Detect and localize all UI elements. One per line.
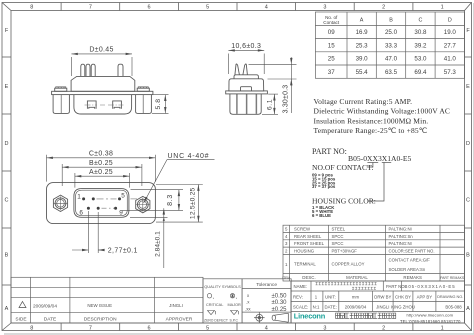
svg-text:UNIT:: UNIT: (325, 294, 336, 299)
revision header (15, 316, 192, 322)
svg-text:A: A (360, 18, 364, 24)
bottom row centerline (102, 207, 115, 209)
svg-text:2,77±0.1: 2,77±0.1 (108, 247, 138, 254)
svg-text:JINGLI: JINGLI (169, 303, 183, 308)
tolerance rows (245, 293, 251, 311)
dimension 8.3 (122, 190, 183, 211)
svg-text:25.0: 25.0 (385, 29, 398, 36)
svg-text:CONTACT AREA:G/F: CONTACT AREA:G/F (389, 257, 431, 262)
svg-text:B05-0XX3X1A0-E5: B05-0XX3X1A0-E5 (405, 284, 456, 289)
svg-text:N:1: N:1 (313, 305, 320, 310)
svg-text:DATE:: DATE: (325, 305, 337, 310)
svg-text:09: 09 (328, 29, 335, 36)
top view screw cap right (138, 87, 148, 88)
svg-text:Dielectric Withstanding Voltag: Dielectric Withstanding Voltage:1000V AC (314, 107, 451, 116)
dimension B±0.25 (62, 164, 142, 186)
title block grid (291, 281, 465, 323)
top view screw body right (136, 95, 152, 114)
zone numbers bottom (30, 325, 443, 331)
dimension 12.5±0.25 (156, 185, 203, 223)
scale row (293, 305, 462, 310)
svg-text:6: 6 (79, 209, 83, 216)
paper edge shadow bottom (4, 333, 474, 335)
side view lower body (230, 94, 261, 114)
dimension 6.1 (262, 94, 278, 114)
dimension C±0.38 (47, 155, 156, 182)
svg-text:DRAWING NO.: DRAWING NO. (437, 295, 463, 299)
top view screw head left (55, 88, 67, 91)
BOM table grid (283, 225, 465, 281)
zone letters left (5, 28, 9, 312)
underline under XX (367, 162, 378, 164)
dimension A±0.25 (75, 173, 130, 188)
svg-text:A: A (5, 306, 9, 312)
svg-text:TEL:0769-85181660 85181770: TEL:0769-85181660 85181770 (400, 319, 461, 324)
svg-text:6: 6 (147, 325, 150, 331)
svg-text:mm: mm (352, 294, 360, 299)
svg-text:12.5±0.25: 12.5±0.25 (189, 187, 196, 219)
svg-text:B: B (466, 253, 470, 259)
svg-text:REAR SHEEL: REAR SHEEL (294, 234, 322, 239)
revision triangle (19, 302, 26, 308)
svg-text:6 = BLUE: 6 = BLUE (312, 213, 331, 218)
svg-text:41.0: 41.0 (444, 56, 457, 63)
svg-text:8.3: 8.3 (167, 194, 174, 206)
svg-text:SPCC: SPCC (332, 241, 344, 246)
zone ticks left (2, 57, 11, 285)
svg-text:39.0: 39.0 (356, 56, 369, 63)
BOM descriptions (294, 227, 325, 267)
front flange (47, 183, 156, 224)
side view prong right (243, 64, 248, 75)
right screw hex (136, 196, 150, 212)
quality symbols box (203, 279, 242, 323)
electrical spec text (314, 97, 451, 135)
svg-text:SPCC: SPCC (332, 234, 344, 239)
top view centerline (85, 104, 124, 106)
svg-text:A±0.25: A±0.25 (89, 169, 113, 176)
svg-text:30.8: 30.8 (414, 29, 427, 36)
svg-text:SCALE:: SCALE: (293, 305, 308, 310)
critical symbol (207, 294, 214, 299)
svg-text:3: 3 (323, 5, 326, 11)
svg-text:6.1: 6.1 (266, 99, 273, 110)
side view shroud notch (241, 87, 252, 91)
svg-text:±0.30: ±0.30 (272, 300, 288, 306)
svg-text:2009/06/04: 2009/06/04 (345, 305, 367, 310)
BOM item numbers (285, 227, 288, 267)
svg-text:15: 15 (328, 42, 335, 49)
dimension 3.30±0.3 (249, 57, 297, 113)
leader contact code (367, 163, 373, 168)
front pins row top (82, 197, 121, 200)
spc symbol (231, 311, 239, 315)
top view screw head right (137, 88, 149, 91)
top view screw body left split (60, 95, 62, 114)
datum target symbol (254, 312, 265, 323)
svg-text:A: A (466, 306, 470, 312)
top view lower body (74, 95, 132, 114)
name row (294, 284, 456, 289)
pin row1 centerline extension to screw (131, 198, 138, 200)
svg-text:10,6±0.3: 10,6±0.3 (231, 43, 261, 50)
svg-text:±0.50: ±0.50 (272, 293, 288, 299)
svg-text:CHK BY: CHK BY (395, 294, 411, 299)
svg-text:25: 25 (328, 56, 335, 63)
svg-text:7: 7 (89, 325, 92, 331)
revision row text (33, 303, 183, 310)
UNC leader (144, 160, 167, 203)
svg-text:25.3: 25.3 (356, 42, 369, 49)
svg-text:PALTING:NI: PALTING:NI (389, 241, 412, 246)
svg-text:http://www.lineconn.com: http://www.lineconn.com (407, 313, 454, 318)
revision table grid (11, 277, 203, 323)
svg-text:2.84±0.1: 2.84±0.1 (155, 231, 162, 257)
top view upper body (71, 76, 135, 91)
svg-text:4: 4 (265, 325, 268, 331)
svg-text:69.4: 69.4 (414, 69, 427, 76)
left screw hex (53, 195, 67, 211)
svg-text:D±0.45: D±0.45 (89, 47, 113, 54)
svg-text:COLOR:SEE PART NO.: COLOR:SEE PART NO. (389, 249, 435, 254)
svg-text:APPROVER: APPROVER (166, 316, 193, 322)
svg-text:2: 2 (382, 5, 385, 11)
dimension 2.84±0.1 (130, 208, 168, 268)
pin number labels (77, 193, 125, 217)
svg-text:63.5: 63.5 (385, 69, 398, 76)
svg-text:9: 9 (119, 210, 123, 217)
svg-text:TERMINAL: TERMINAL (294, 262, 316, 267)
front shroud inner (76, 190, 128, 216)
svg-text:3: 3 (323, 325, 326, 331)
svg-text:33.3: 33.3 (385, 42, 398, 49)
svg-text:C±0.38: C±0.38 (89, 151, 113, 158)
svg-text:8: 8 (30, 325, 33, 331)
svg-text:3.30±0.3: 3.30±0.3 (283, 85, 290, 114)
UNC underline (167, 159, 215, 161)
top row centerline (97, 198, 117, 200)
front pins row bottom (87, 207, 117, 210)
zero defect symbol (208, 311, 216, 315)
corner diagonal BL (2, 323, 11, 331)
zone ticks top (61, 3, 413, 11)
leader color code (368, 163, 385, 202)
svg-text:B05-088: B05-088 (445, 305, 462, 310)
svg-text:COPPER ALLOY: COPPER ALLOY (332, 262, 365, 267)
svg-text:NEW ISSUE: NEW ISSUE (87, 303, 112, 308)
top view flange bar (52, 91, 153, 94)
svg-text:MAJOR: MAJOR (228, 303, 242, 307)
svg-text:QUALITY SYMBOLS: QUALITY SYMBOLS (204, 284, 241, 289)
svg-text:57.3: 57.3 (444, 69, 457, 76)
side view channel dividers (236, 94, 256, 114)
svg-text:39.2: 39.2 (414, 42, 427, 49)
dimension 10.6±0.3 (228, 50, 264, 74)
svg-text:E: E (466, 84, 470, 90)
svg-text:ZERO DEFECT: ZERO DEFECT (204, 319, 228, 323)
svg-text:Contact: Contact (323, 20, 340, 25)
zone letters right (466, 28, 470, 312)
svg-text:C: C (418, 18, 422, 24)
svg-text:STEEL: STEEL (332, 227, 346, 232)
zone ticks bottom (61, 323, 413, 331)
major symbol (230, 294, 237, 299)
rev row (293, 294, 463, 299)
svg-text:Lineconn: Lineconn (294, 312, 326, 321)
svg-text:PALTING:NI: PALTING:NI (389, 227, 412, 232)
svg-text:SIDE: SIDE (15, 316, 26, 322)
svg-text:.xx: .xx (245, 306, 251, 311)
top view screw body left (53, 95, 69, 114)
quality symbols text (204, 284, 241, 323)
svg-text:PALTING:Sn: PALTING:Sn (389, 234, 414, 239)
svg-text:D: D (448, 18, 452, 24)
corner diagonal TL (2, 3, 11, 11)
svg-text:55.4: 55.4 (356, 69, 369, 76)
svg-text:NO.OF CONTACT:: NO.OF CONTACT: (312, 163, 373, 172)
contact table header (323, 15, 452, 25)
svg-text:REV:: REV: (293, 294, 303, 299)
projection cone symbol (272, 313, 288, 322)
svg-text:27.7: 27.7 (444, 42, 457, 49)
svg-text:ITEM: ITEM (282, 276, 290, 280)
svg-text:PART REMAKS: PART REMAKS (440, 276, 465, 280)
side view main flange (226, 91, 268, 94)
BOM header row (282, 275, 465, 280)
svg-text:C: C (5, 198, 9, 204)
svg-text:47.0: 47.0 (385, 56, 398, 63)
side view top cushion (234, 75, 258, 79)
contact dimension table (315, 12, 464, 78)
svg-text:B±0.25: B±0.25 (89, 160, 113, 167)
BOM remarks (389, 227, 435, 272)
svg-text:PBT+30%GF: PBT+30%GF (332, 249, 358, 254)
svg-text:PART NO:: PART NO: (312, 147, 347, 156)
svg-text:4: 4 (265, 5, 268, 11)
svg-text:REMAKS: REMAKS (403, 275, 422, 280)
svg-text:5.8: 5.8 (155, 98, 162, 109)
tolerance box (242, 279, 291, 323)
zone ticks right (465, 57, 472, 285)
corner diagonal TR (465, 3, 472, 11)
svg-text:Voltage Current Rating:5 AMP.: Voltage Current Rating:5 AMP. (314, 97, 413, 106)
contact table rows (328, 29, 457, 76)
svg-text:CRITICAL: CRITICAL (206, 303, 223, 307)
svg-text:6: 6 (147, 5, 150, 11)
svg-text:5: 5 (206, 5, 209, 11)
svg-text:±0.25: ±0.25 (272, 307, 288, 313)
svg-text:SOLDER AREA:Sn: SOLDER AREA:Sn (389, 267, 426, 272)
paper edge shadow right (472, 3, 474, 334)
company chinese name (simulated glyph boxes) (336, 313, 396, 318)
svg-text:37 = 37 pos: 37 = 37 pos (312, 184, 336, 189)
svg-text:2: 2 (382, 325, 385, 331)
svg-text:8: 8 (30, 5, 33, 11)
side view prong left (235, 64, 240, 75)
svg-text:NAME:: NAME: (294, 284, 308, 289)
svg-text:PART NO.: PART NO. (386, 284, 406, 289)
svg-text:16.9: 16.9 (356, 29, 369, 36)
corner diagonal BR (465, 323, 472, 331)
top view slot post right (113, 101, 122, 109)
top view prong right (118, 64, 123, 76)
svg-text:7: 7 (89, 5, 92, 11)
svg-text:FRONT SHEEL: FRONT SHEEL (294, 241, 325, 246)
side view shroud (229, 79, 264, 91)
svg-text:Temperature Range:-25℃ to +85℃: Temperature Range:-25℃ to +85℃ (314, 126, 428, 135)
front shroud outer (74, 189, 129, 218)
name row product chinese (simulated) (316, 282, 377, 289)
zone numbers top (30, 5, 443, 11)
svg-text:B: B (5, 253, 9, 259)
svg-text:KING ZHOU: KING ZHOU (391, 305, 415, 310)
svg-text:MATERIAL: MATERIAL (346, 275, 368, 280)
svg-text:Tolerance: Tolerance (256, 282, 277, 288)
top view prong group left (81, 64, 95, 76)
svg-text:1: 1 (441, 325, 444, 331)
BOM materials (332, 227, 365, 267)
dimension 2.77±0.1 (72, 211, 105, 253)
svg-text:DATE: DATE (44, 316, 56, 322)
svg-text:2009/09/04: 2009/09/04 (33, 303, 57, 309)
top view screw body right split (142, 95, 144, 114)
svg-text:C: C (466, 198, 470, 204)
svg-text:DRW BY: DRW BY (374, 294, 391, 299)
svg-text:D: D (5, 141, 9, 147)
svg-text:1: 1 (441, 5, 444, 11)
contact list (312, 173, 336, 190)
svg-text:UNC 4-40#: UNC 4-40# (168, 153, 210, 160)
svg-text:37: 37 (328, 69, 335, 76)
svg-text:SCREW: SCREW (294, 227, 311, 232)
housing color list (312, 205, 335, 218)
svg-text:5: 5 (121, 193, 125, 200)
svg-text:JINGLI: JINGLI (376, 305, 389, 310)
top view slot post left (87, 101, 96, 109)
svg-text:DESCRIPTION: DESCRIPTION (84, 316, 117, 322)
svg-text:E: E (5, 84, 9, 90)
svg-text:Insulation Resistance:1000MΩ M: Insulation Resistance:1000MΩ Min. (314, 116, 429, 125)
svg-text:B: B (389, 18, 393, 24)
svg-text:5: 5 (206, 325, 209, 331)
underline under X1 (382, 162, 391, 164)
svg-text:1: 1 (77, 193, 81, 200)
dimension D±0.45 (71, 54, 132, 76)
top view screw cap left (56, 87, 66, 88)
svg-text:19.0: 19.0 (444, 29, 457, 36)
svg-text:S.P.C: S.P.C (230, 319, 239, 323)
svg-text:APP BY: APP BY (417, 294, 433, 299)
svg-text:DESC.: DESC. (302, 275, 315, 280)
dimension 5.8 (152, 95, 169, 114)
svg-text:B05-0XX3X1A0-E5: B05-0XX3X1A0-E5 (348, 154, 411, 163)
svg-text:D: D (466, 141, 470, 147)
svg-text:53.0: 53.0 (414, 56, 427, 63)
svg-text:HOUSING: HOUSING (294, 249, 315, 254)
